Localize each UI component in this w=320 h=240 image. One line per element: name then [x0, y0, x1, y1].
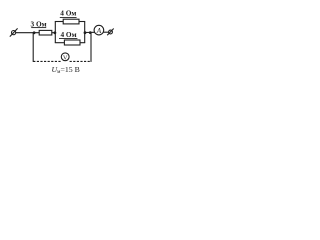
svg-text:A: A	[96, 27, 102, 35]
wire: right vertical of parallel section	[84, 22, 86, 43]
node D (voltmeter tap junction dot)	[89, 31, 92, 34]
label: 3 Ом	[31, 19, 47, 28]
node B (parallel split junction dot)	[54, 31, 57, 34]
ammeter A1	[94, 25, 104, 35]
wire: voltmeter bottom dashed lead (left)	[33, 60, 61, 62]
svg-text:3 Ом: 3 Ом	[31, 19, 47, 28]
wire: R1 to node B	[52, 32, 56, 34]
wire: voltmeter bottom dashed lead (right)	[70, 60, 91, 62]
terminal X2 (right output)	[107, 29, 114, 36]
svg-text:4 Ом: 4 Ом	[60, 8, 76, 17]
label: 4 Ом (top)	[60, 8, 77, 17]
node A (voltmeter tap junction dot)	[33, 31, 36, 34]
wire: ammeter to right terminal	[104, 31, 109, 33]
svg-text:Uм=15 В: Uм=15 В	[52, 65, 80, 75]
wire: left terminal to resistor R1	[16, 32, 40, 34]
node C (parallel merge junction dot)	[84, 31, 87, 34]
wire: top rail right segment	[79, 21, 85, 23]
svg-text:V: V	[63, 54, 68, 61]
wire: left vertical of parallel section	[54, 22, 56, 43]
resistor R3 4 Ом (bottom branch)	[64, 40, 80, 45]
wire: voltmeter right lead (vertical)	[90, 33, 92, 62]
svg-text:4 Ом: 4 Ом	[60, 30, 76, 39]
wire: node C to ammeter	[85, 31, 95, 33]
voltmeter V1	[61, 53, 69, 61]
wire: bottom rail left segment	[55, 42, 65, 44]
wire: voltmeter left lead (vertical)	[32, 33, 34, 62]
wire: bottom rail right segment	[80, 42, 85, 44]
label: 4 Ом (bottom)	[59, 30, 77, 39]
terminal X1 (left input)	[10, 28, 18, 36]
resistor R2 4 Ом (top branch)	[63, 19, 79, 24]
wire: top rail left segment	[55, 21, 63, 23]
resistor R1 3 Ом	[39, 30, 52, 35]
